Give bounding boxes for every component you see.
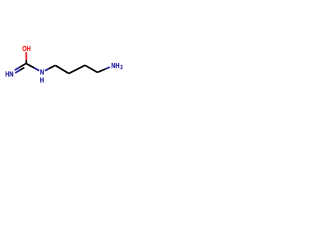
double bond C1=N1 inner line black half bbox=[20, 68, 25, 71]
svg-text:H: H bbox=[40, 77, 44, 85]
bond N2-C2 blue half (N side) bbox=[45, 69, 49, 71]
svg-text:HN: HN bbox=[5, 71, 13, 79]
svg-text:N: N bbox=[40, 69, 44, 77]
bond C2-C3 bbox=[55, 65, 69, 73]
svg-text:NH: NH bbox=[111, 62, 119, 70]
bond C4-C5 bbox=[85, 65, 97, 72]
double bond C1=N1 main line blue half (N side) bbox=[15, 67, 20, 70]
double bond C1=N1 inner line blue half bbox=[15, 70, 20, 73]
svg-text:OH: OH bbox=[22, 45, 31, 53]
bond C1-O red half (O side) bbox=[25, 52, 27, 60]
bond C3-C4 bbox=[69, 65, 85, 73]
bond C1-N2 blue half (N side) bbox=[34, 68, 39, 71]
bond C5-N3 blue half (N side) bbox=[106, 67, 110, 69]
bond N2-C2 black half bbox=[49, 65, 56, 68]
bond C1-O black half (C side) bbox=[25, 60, 27, 64]
bond C1-N2 black half (C side) bbox=[26, 64, 34, 68]
double bond C1=N1 main line black half (C side) bbox=[20, 63, 27, 67]
bond C5-N3 black half (C side) bbox=[97, 69, 105, 73]
